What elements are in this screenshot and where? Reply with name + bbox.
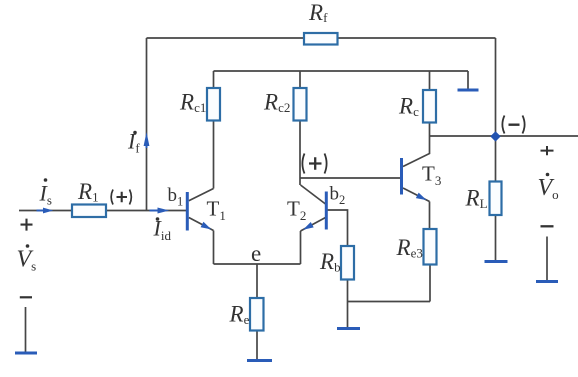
transistor T3 [402, 136, 430, 203]
label (-) output [502, 116, 524, 134]
label + (Vs) [21, 219, 33, 231]
current arrow If [144, 132, 150, 148]
label - (Vo) [541, 225, 554, 227]
node: output junction [490, 131, 500, 141]
resistor Rb [341, 246, 354, 280]
resistor R1 [72, 205, 106, 218]
ground: Vs source [15, 352, 37, 355]
resistor Re [250, 298, 264, 331]
resistor RL [490, 182, 502, 216]
label (+) input [111, 190, 131, 205]
ground: Re [247, 359, 272, 362]
label - (Vs) [20, 296, 32, 298]
wire: Re branch [256, 264, 258, 359]
ground: Vo [536, 280, 558, 283]
wire: Rc branch (rail to output line) [429, 71, 431, 136]
wire: emitter bus e [214, 263, 301, 265]
wire: supply rail [214, 70, 469, 72]
transistor T1 [187, 189, 213, 233]
wire: Rb bottom to ground bus [347, 280, 349, 302]
wire: T2 emitter down to e [300, 231, 302, 264]
wire: output line [430, 135, 578, 137]
resistor Rf [304, 33, 338, 45]
wire: T2 base to Rb [327, 210, 348, 246]
wire: T3 emitter to Re3 [429, 202, 431, 230]
wire: feedback left vertical [146, 38, 148, 211]
wire: bottom bus Rb to Re3 [348, 301, 431, 303]
wire: Vo ground lead [546, 237, 548, 281]
wire: RL branch from output node [495, 136, 497, 261]
label (+) mid [302, 154, 326, 174]
svg-text:e: e [251, 241, 261, 266]
wire: Rc1 branch (rail to T1 collector) [213, 71, 215, 189]
transistor T2 [301, 185, 327, 232]
resistor Rc2 [294, 88, 307, 121]
ground: Rb [337, 327, 360, 330]
current arrow Is [37, 208, 54, 214]
wire: T3 base from node + [300, 177, 401, 179]
label + (Vo) [541, 146, 554, 155]
wire: feedback right vertical [495, 38, 497, 136]
wire: feedback top horizontal [147, 37, 496, 39]
wire: Re3 bottom to bus [429, 265, 431, 302]
ground: RL [485, 260, 508, 263]
resistor Re3 [424, 229, 437, 265]
wire: supply terminal stub [467, 71, 469, 89]
current arrow Iid [150, 208, 170, 214]
power terminal bar [458, 89, 479, 92]
wire: Vs source ground lead [25, 307, 27, 352]
resistor Rc [423, 90, 436, 123]
resistor Rc1 [207, 88, 220, 121]
wire: input from source to T1 base [19, 210, 186, 212]
wire: ground stub under Rb [347, 302, 349, 328]
wire: Rc2 branch (rail to node +) [299, 71, 301, 185]
wire: T1 emitter down to e [213, 231, 215, 265]
